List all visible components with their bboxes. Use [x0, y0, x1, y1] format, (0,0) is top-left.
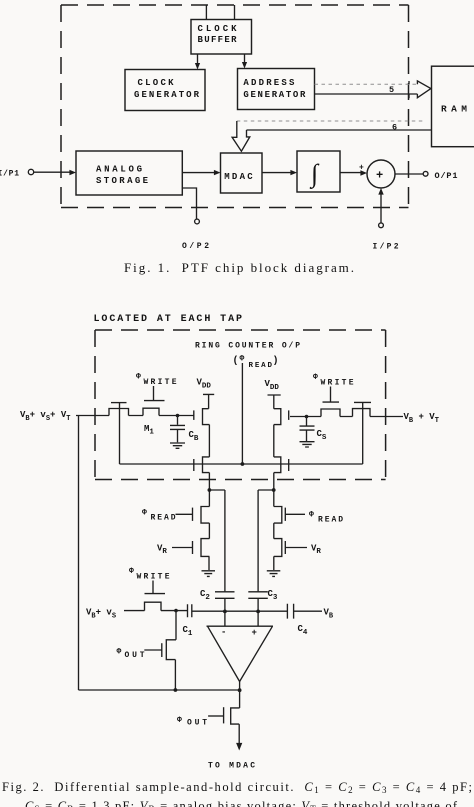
svg-text:CS = CB = 1.3 pF; VB = analog: CS = CB = 1.3 pF; VB = analog bias volta…: [25, 799, 458, 807]
svg-text:(: (: [233, 355, 239, 367]
wire left input: [76, 415, 194, 417]
wire I/P2 into summer bottom: [380, 193, 382, 223]
capacitor CB: [176, 414, 180, 418]
svg-text:O/P1: O/P1: [435, 171, 458, 181]
wire phiWRITE gate lead (left): [153, 386, 155, 400]
svg-text:∫: ∫: [309, 159, 320, 189]
block CLOCK BUFFER: [191, 20, 252, 55]
ground below CS: [300, 442, 315, 447]
transistor phiWRITE switch (right): [321, 409, 340, 417]
svg-text:Φ: Φ: [142, 509, 147, 518]
transistor ring-gated MOSFET (right): [353, 409, 371, 417]
wire branch to C3: [258, 490, 274, 591]
wire follower rail (right): [273, 425, 275, 457]
wire phiWRITE gate lead (right): [330, 387, 332, 402]
svg-text:5: 5: [389, 85, 394, 95]
terminal O/P2: [195, 219, 200, 224]
svg-text:WRITE: WRITE: [321, 379, 354, 388]
svg-text:RING COUNTER O/P: RING COUNTER O/P: [195, 342, 300, 351]
ground below right stack: [273, 556, 275, 570]
wire ring counter output (node phi-read): [241, 363, 243, 464]
svg-text:VR: VR: [157, 544, 167, 557]
dashed chip boundary box (Fig.1): [61, 5, 409, 208]
transistor input sampling switch (bottom left): [145, 602, 162, 610]
wire clock input line A: [205, 5, 207, 20]
hollow arrow into MDAC top: [232, 121, 250, 151]
wire summer to O/P1: [395, 173, 423, 175]
wire right gate to shared gate line: [362, 402, 364, 464]
terminal O/P1: [423, 171, 428, 176]
transistor source follower upper (left): [203, 409, 210, 425]
svg-text:+: +: [376, 169, 383, 183]
svg-text:READ: READ: [151, 514, 176, 523]
transistor VR cascode (left): [201, 523, 209, 556]
block RAM: [432, 66, 474, 147]
svg-text:CS: CS: [317, 429, 327, 442]
capacitor C2: [215, 592, 235, 599]
svg-text:-: -: [221, 628, 226, 638]
svg-text:CB: CB: [189, 430, 199, 443]
svg-text:CLOCK: CLOCK: [198, 24, 238, 34]
svg-text:Φ: Φ: [177, 716, 182, 725]
svg-text:VB: VB: [324, 608, 334, 621]
ground below CB: [170, 443, 185, 448]
svg-text:6: 6: [392, 123, 397, 133]
capacitor CS: [305, 415, 309, 419]
svg-text:CLOCK: CLOCK: [138, 78, 175, 88]
wire right input: [290, 416, 403, 418]
transistor source follower upper (right): [274, 409, 281, 425]
svg-text:TO MDAC: TO MDAC: [208, 762, 255, 771]
wire op-amp output: [239, 682, 241, 708]
wire integrator to summer: [340, 172, 362, 174]
dashed tap cell boundary: [95, 330, 386, 480]
wire C4 to VB: [294, 610, 322, 612]
block CLOCK GENERATOR: [125, 70, 205, 111]
wire output feedback line: [79, 689, 240, 691]
svg-text:WRITE: WRITE: [137, 573, 170, 582]
transistor phiREAD (left): [201, 507, 209, 524]
svg-text:M1: M1: [144, 424, 154, 437]
transistor phiREAD (right): [274, 507, 282, 524]
svg-text:OUT: OUT: [125, 651, 145, 660]
svg-text:READ: READ: [249, 362, 273, 370]
svg-text:I/P2: I/P2: [373, 243, 399, 252]
svg-text:VB+ vS+ VT: VB+ vS+ VT: [20, 410, 70, 423]
svg-text:Φ: Φ: [313, 373, 318, 382]
svg-text:): ): [273, 355, 279, 367]
wire bottom phiWRITE gate lead: [152, 581, 154, 594]
svg-text:READ: READ: [318, 516, 343, 525]
wire O/P2 tap: [182, 188, 196, 219]
wire buffer to clock generator: [197, 54, 199, 65]
capacitor C4: [287, 604, 293, 619]
svg-text:VB + VT: VB + VT: [404, 412, 439, 425]
block integrator: [297, 151, 340, 192]
svg-text:VDD: VDD: [197, 378, 212, 391]
svg-text:Φ: Φ: [117, 648, 122, 657]
svg-text:O/P2: O/P2: [182, 242, 209, 251]
svg-text:ADDRESS: ADDRESS: [243, 78, 295, 88]
block ADDRESS GENERATOR: [238, 69, 315, 110]
svg-text:RAM: RAM: [441, 104, 467, 115]
transistor write-enable lower (right): [274, 457, 281, 473]
svg-text:VB+ vS: VB+ vS: [86, 608, 116, 621]
op-amp U1: [207, 626, 274, 681]
svg-text:Fig. 2. Differential sample-a: Fig. 2. Differential sample-and-hold cir…: [2, 780, 472, 795]
arrow to MDAC: [236, 743, 242, 751]
svg-text:C4: C4: [298, 624, 308, 637]
terminal I/P2: [379, 223, 384, 228]
wire branch to C2: [209, 490, 225, 591]
ground below left stack: [208, 556, 210, 570]
svg-text:Fig. 1. PTF chip block diagra: Fig. 1. PTF chip block diagram.: [124, 260, 354, 275]
svg-text:OUT: OUT: [187, 719, 207, 728]
svg-text:LOCATED AT EACH TAP: LOCATED AT EACH TAP: [94, 314, 243, 325]
transistor write-enable lower (left): [203, 457, 210, 473]
svg-text:Φ: Φ: [240, 355, 245, 364]
svg-text:MDAC: MDAC: [224, 172, 253, 182]
svg-text:GENERATOR: GENERATOR: [134, 90, 200, 100]
wire buffer to address generator: [244, 54, 246, 64]
svg-text:+: +: [359, 164, 364, 173]
svg-text:Φ: Φ: [309, 511, 314, 520]
transistor VR cascode (right): [274, 523, 282, 556]
svg-text:VR: VR: [311, 544, 321, 557]
svg-text:C1: C1: [183, 625, 193, 638]
block ANALOG STORAGE: [76, 151, 182, 195]
capacitor C1: [188, 604, 192, 617]
wire MDAC to integrator: [262, 172, 292, 174]
wire C1 to summing node: [192, 610, 287, 612]
svg-text:GENERATOR: GENERATOR: [243, 90, 306, 100]
svg-text:WRITE: WRITE: [144, 378, 177, 387]
transistor phiWRITE switch (left): [143, 408, 159, 415]
wire I/P1 to analog storage: [34, 171, 71, 173]
svg-text:BUFFER: BUFFER: [198, 35, 238, 45]
capacitor C3: [248, 592, 267, 599]
svg-text:STORAGE: STORAGE: [96, 176, 149, 186]
transistor phiOUT feedback switch: [166, 611, 176, 690]
wire clock input line B: [234, 5, 236, 20]
svg-text:+: +: [252, 628, 257, 638]
transistor M1 (left sampling MOSFET): [109, 409, 129, 416]
wire rail to read stack (left): [208, 473, 210, 507]
wire bottom input: [124, 610, 187, 612]
wire shared gate line: [120, 463, 363, 465]
svg-text:ANALOG: ANALOG: [96, 165, 142, 175]
svg-text:I/P1: I/P1: [0, 170, 19, 179]
block MDAC: [221, 153, 263, 193]
svg-text:VDD: VDD: [265, 379, 280, 392]
wire rail to read stack (right): [273, 473, 275, 507]
svg-text:Φ: Φ: [129, 567, 134, 576]
transistor phiOUT output switch: [231, 708, 240, 744]
wire follower rail (left): [208, 425, 210, 457]
svg-text:C3: C3: [268, 589, 278, 602]
wire left feedback rail: [78, 416, 80, 691]
wire analog storage to MDAC: [182, 172, 215, 174]
bus address generator to RAM (5 lines): [315, 83, 418, 85]
bus RAM to MDAC (6 lines): [237, 120, 425, 122]
svg-text:C2: C2: [200, 589, 210, 602]
summer node: [367, 160, 395, 188]
wire M1 gate to shared gate line: [119, 403, 121, 464]
svg-text:Φ: Φ: [136, 373, 141, 382]
